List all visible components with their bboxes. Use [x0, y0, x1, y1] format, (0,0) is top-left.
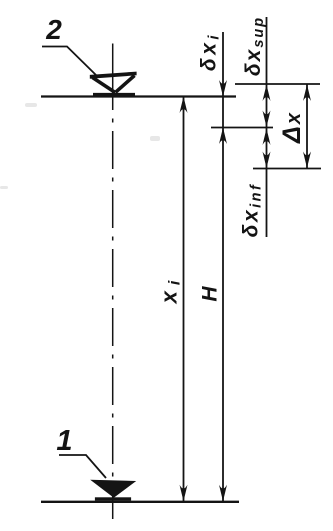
arrow down Delta-x bottom [303, 152, 311, 169]
wire sup level line [235, 83, 320, 85]
wire Delta-x dimension line [306, 84, 308, 169]
wire leader line for label 1 [59, 455, 106, 478]
wire x_i dimension line [183, 97, 185, 502]
arrow down delta-x_i (outside, above top line) [219, 80, 227, 97]
arrow down x_i bottom [180, 485, 188, 502]
wire inf level line [253, 168, 321, 170]
wire top datum line (level of point 2 / x_i) [41, 95, 236, 97]
arrow up x_i top [180, 97, 188, 114]
benchmark symbol point 1 (filled triangle) [90, 480, 136, 501]
wire delta-x sup/inf dimension line [266, 17, 268, 237]
faint scan smudges [0, 103, 160, 189]
arrow down delta-x-sup bottom [263, 111, 271, 128]
arrow up Delta-x top [303, 85, 311, 102]
arrow up delta-x-sup top [263, 85, 271, 102]
wire bottom ground line (level of point 1) [41, 501, 239, 503]
arrow down delta-x-inf bottom [263, 152, 271, 169]
wire H (true value) level line [211, 127, 273, 129]
wire leader line for label 2 [42, 47, 98, 78]
benchmark symbol point 2 (open triangle) [90, 72, 137, 95]
arrow up delta-x-inf top [263, 129, 271, 146]
svg-text:2: 2 [45, 14, 62, 45]
wire delta-x_i / H dimension line [222, 32, 224, 502]
svg-text:Δx: Δx [278, 111, 306, 144]
svg-text:1: 1 [56, 425, 72, 457]
svg-text:H: H [199, 286, 222, 302]
arrow up H top [219, 128, 227, 145]
arrowheads [180, 80, 312, 501]
node centerline axis (dash-dot) [112, 44, 114, 98]
arrow down H bottom [219, 485, 227, 502]
